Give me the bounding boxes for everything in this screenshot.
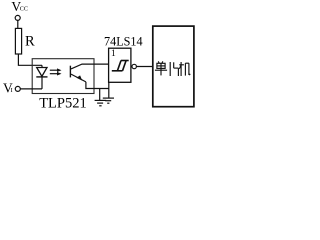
optocoupler box TLP521: [32, 59, 94, 94]
LED anode stub: [41, 65, 43, 67]
Vcc label: [11, 0, 28, 14]
svg-text:R: R: [25, 34, 35, 50]
LED cathode bar: [36, 76, 47, 78]
svg-text:1: 1: [111, 49, 116, 59]
schmitt hysteresis symbol: [112, 61, 129, 71]
Vi label: [3, 80, 13, 95]
light arrow 2: [50, 72, 62, 76]
LED cathode wire down: [41, 77, 43, 89]
resistor R: [15, 28, 21, 54]
svg-text:CC: CC: [20, 6, 28, 13]
ground (emitter): [95, 100, 107, 105]
Vi terminal: [15, 86, 20, 91]
MCU box: [153, 26, 194, 107]
emitter wire to ground node: [86, 82, 109, 89]
svg-text:TLP521: TLP521: [39, 95, 87, 111]
emitter with arrow: [71, 74, 86, 82]
74LS14 gate box: [109, 48, 131, 82]
hanzi dan: [155, 61, 167, 75]
hanzi pian: [170, 62, 178, 76]
wire gate to MCU: [136, 66, 152, 68]
phototransistor base bar: [69, 66, 71, 78]
LED triangle: [37, 68, 47, 77]
gate ground stem: [108, 82, 110, 97]
light arrow 1: [50, 68, 62, 72]
hanzi ji: [179, 62, 190, 76]
MCU label 单片机 (drawn): [155, 61, 190, 76]
svg-text:74LS14: 74LS14: [104, 35, 143, 49]
wire Vcc to R: [17, 20, 19, 28]
output bubble: [132, 64, 136, 68]
collector: [71, 64, 109, 69]
ground stem (emitter): [99, 89, 101, 101]
gate ground: [103, 98, 114, 103]
Vcc terminal: [15, 15, 20, 20]
wire R down and right to LED anode: [18, 54, 42, 65]
Vi wire: [20, 88, 42, 90]
svg-text:I: I: [11, 87, 13, 94]
